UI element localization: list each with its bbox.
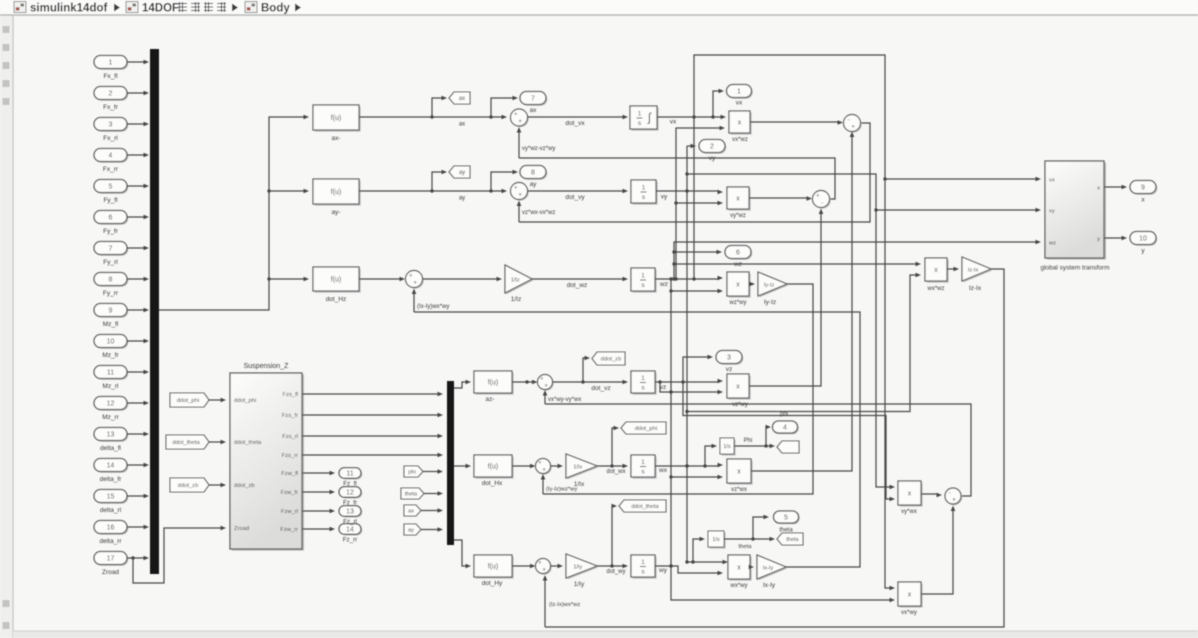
feedback row3 path <box>414 312 860 567</box>
wire fcn Hx to sum <box>512 464 536 469</box>
wire inport 13 to mux <box>127 432 149 437</box>
svg-text:6: 6 <box>736 250 740 257</box>
breadcrumb arrow 1 <box>114 4 120 12</box>
svg-text:Mz_fr: Mz_fr <box>102 352 119 359</box>
breadcrumb text simulink14dof <box>30 3 107 15</box>
wire sum3 to gain <box>423 277 503 282</box>
inport 9 Mz_fl <box>94 304 128 329</box>
svg-text:Fzs_fl: Fzs_fl <box>283 392 298 398</box>
svg-text:Fx_rl: Fx_rl <box>103 135 118 142</box>
svg-text:f(u): f(u) <box>488 380 499 387</box>
wire Fzw_rr to outport 14 <box>302 527 335 532</box>
wire ax to mux <box>421 508 443 513</box>
fcn block az <box>474 371 514 403</box>
svg-text:Iy-Iz: Iy-Iz <box>764 299 776 306</box>
svg-text:Fz_rl: Fz_rl <box>343 519 357 526</box>
svg-text:dot_wz: dot_wz <box>567 282 588 289</box>
wire to outport 8 <box>491 170 518 191</box>
svg-text:Fx_fl: Fx_fl <box>103 73 118 80</box>
svg-text:1/s: 1/s <box>712 537 720 543</box>
svg-text:+: + <box>538 560 542 567</box>
from tag theta <box>401 488 424 499</box>
svg-text:delta_fl: delta_fl <box>100 445 122 452</box>
wire inport 8 to mux <box>127 277 149 282</box>
svg-text:+: + <box>542 567 546 574</box>
svg-text:Fzs_rl: Fzs_rl <box>282 434 298 440</box>
svg-text:+: + <box>409 273 413 280</box>
breadcrumb icon 14DOF <box>126 2 138 13</box>
svg-text:wz*wy: wz*wy <box>728 300 746 306</box>
svg-text:ay: ay <box>459 170 465 176</box>
label wx <box>658 467 668 474</box>
wire wzwy to gain <box>749 282 755 287</box>
gain Iy-Iz <box>758 272 788 306</box>
wire theta to mux <box>424 491 443 496</box>
wire vx down segment <box>693 117 695 279</box>
svg-text:phi: phi <box>780 412 788 418</box>
svg-text:f(u): f(u) <box>331 115 342 122</box>
wire mux to fcn Hx <box>454 464 471 469</box>
wire ddot_phi in <box>209 398 226 403</box>
svg-text:ay-: ay- <box>331 209 340 216</box>
svg-text:dot_wx: dot_wx <box>606 469 625 475</box>
feedback az path <box>545 404 971 496</box>
sum Hy <box>536 559 552 575</box>
from tag ax2 <box>404 505 421 516</box>
wire gain Ix to integrator <box>597 464 628 475</box>
feedback row2 arrow <box>517 201 556 223</box>
svg-text:1/Ix: 1/Ix <box>573 464 582 470</box>
inport 17 Zroad <box>94 552 128 577</box>
svg-text:Mz_rr: Mz_rr <box>102 414 119 421</box>
feedback Hy arrow <box>543 575 581 627</box>
wire phi out <box>734 444 775 449</box>
product vz*wx <box>727 459 753 493</box>
svg-text:vz*wy: vz*wy <box>732 402 748 408</box>
outport 1 vx <box>727 85 753 107</box>
label wy <box>658 567 668 574</box>
wire vz lower to product <box>660 382 723 394</box>
svg-text:ay: ay <box>459 196 465 202</box>
svg-text:x: x <box>737 565 741 572</box>
svg-text:ddot_zb: ddot_zb <box>601 357 622 363</box>
svg-text:15: 15 <box>107 494 115 501</box>
svg-text:ddot_phi: ddot_phi <box>177 398 199 404</box>
wire vz to outport 3 <box>683 355 713 382</box>
svg-text:13: 13 <box>107 432 115 439</box>
wire vxwz to sum <box>750 120 843 125</box>
svg-text:Fz_rr: Fz_rr <box>343 537 357 544</box>
svg-text:9: 9 <box>109 308 113 315</box>
svg-text:ddot_phi: ddot_phi <box>635 426 657 432</box>
sum row2 <box>511 183 529 201</box>
svg-text:ay: ay <box>408 528 414 534</box>
feedback Hx arrow <box>541 474 578 494</box>
wire sum2 to integrator <box>528 189 629 201</box>
label outport 12 Fz_fr <box>343 500 357 507</box>
svg-text:-: - <box>821 200 823 207</box>
wire wxwz to gain <box>947 267 959 272</box>
svg-text:dot_vx: dot_vx <box>565 120 585 127</box>
svg-text:ddot_phi: ddot_phi <box>234 398 256 404</box>
palette icons <box>3 26 10 629</box>
svg-text:2: 2 <box>710 144 714 151</box>
svg-text:ax: ax <box>459 122 465 128</box>
svg-text:ddot_theta: ddot_theta <box>631 504 659 510</box>
product vy*wx <box>898 481 923 515</box>
wire inport 5 to mux <box>127 184 149 189</box>
label ax wire <box>459 122 465 128</box>
svg-text:vz: vz <box>660 384 667 391</box>
fcn block ay <box>313 179 361 216</box>
sum row1 <box>511 109 529 127</box>
wire sum Hx to gain <box>551 464 564 469</box>
small integrator phi <box>720 438 736 456</box>
mux bar main <box>150 49 159 574</box>
svg-text:4: 4 <box>109 153 113 160</box>
wire wx to product wx*wy upper <box>685 560 728 565</box>
wire inport 17 to mux <box>127 556 149 561</box>
svg-text:8: 8 <box>109 277 113 284</box>
outport 2 vy <box>699 140 726 163</box>
svg-text:f(u): f(u) <box>488 464 499 471</box>
svg-text:f(u): f(u) <box>331 277 342 284</box>
from tag phi <box>404 466 423 477</box>
outport 5 theta <box>774 511 800 534</box>
svg-text:Zroad: Zroad <box>102 569 119 576</box>
svg-text:x: x <box>934 267 938 274</box>
svg-text:Fy_rr: Fy_rr <box>103 290 119 297</box>
gain Ix-Iy <box>757 555 787 589</box>
svg-text:wx*wz: wx*wz <box>926 286 944 292</box>
label Phi <box>744 438 753 444</box>
outport 12 Fz_fr <box>339 487 362 499</box>
inport 12 Mz_rr <box>94 397 128 422</box>
inport 1 Fx_fl <box>94 56 128 81</box>
sum right2 <box>813 191 831 209</box>
svg-text:dot_Hy: dot_Hy <box>482 580 503 587</box>
svg-text:theta: theta <box>405 492 418 498</box>
outport 11 Fz_fl <box>339 468 362 480</box>
wire wz to product wx*wz <box>674 262 921 267</box>
from tag ddot_phi <box>170 393 209 407</box>
inport 2 Fx_fr <box>94 87 128 112</box>
svg-text:Fzw_fr: Fzw_fr <box>281 490 298 496</box>
from tag ddot_theta <box>166 435 209 449</box>
integrator vx <box>630 106 659 131</box>
wire vy loop <box>685 172 895 489</box>
svg-text:1/Iy: 1/Iy <box>574 581 585 588</box>
svg-text:vy*wz: vy*wz <box>730 213 746 219</box>
wire fcn az to sum <box>512 380 538 385</box>
svg-text:Fzw_fl: Fzw_fl <box>281 471 298 477</box>
svg-text:ddot_zb: ddot_zb <box>234 483 255 489</box>
subsystem global system transform <box>1041 161 1110 272</box>
wire ddot_zb in <box>209 483 226 488</box>
wire to outport 2 <box>687 144 696 562</box>
breadcrumb pseudo-CJK 整车模型 <box>178 2 226 12</box>
wire wz riser up <box>672 240 1041 279</box>
svg-text:7: 7 <box>531 96 535 103</box>
svg-text:Fy_fl: Fy_fl <box>103 197 118 204</box>
outport 13 Fz_rl <box>339 506 362 518</box>
wire wxwy to gain <box>749 565 755 570</box>
svg-text:ax: ax <box>459 96 465 102</box>
svg-text:10: 10 <box>107 339 115 346</box>
svg-text:Fzw_rl: Fzw_rl <box>281 509 298 515</box>
wire fcn Hy to sum <box>512 564 536 569</box>
integrator vz <box>631 371 657 395</box>
svg-text:3: 3 <box>727 355 731 362</box>
goto tag ddot_zb <box>592 352 625 365</box>
mux bar mid <box>447 381 454 545</box>
svg-text:7: 7 <box>109 246 113 253</box>
svg-text:3: 3 <box>109 122 113 129</box>
svg-text:wz: wz <box>659 281 668 288</box>
wire vzwx out to sum right1 <box>751 132 854 472</box>
svg-text:wx*wy: wx*wy <box>729 583 747 589</box>
inport 13 delta_fl <box>94 428 128 453</box>
product vz*wy <box>727 374 751 408</box>
svg-text:x: x <box>738 120 742 127</box>
svg-text:Ix-Iy: Ix-Iy <box>763 565 774 571</box>
svg-text:+: + <box>518 192 522 199</box>
fcn block dot_Hx <box>474 455 514 487</box>
svg-text:Fy_fr: Fy_fr <box>103 228 119 235</box>
svg-text:phi: phi <box>408 470 416 476</box>
integrator wy <box>631 555 657 579</box>
svg-text:dot_Hz: dot_Hz <box>326 296 347 303</box>
svg-text:simulink14dof: simulink14dof <box>30 3 107 15</box>
svg-text:10: 10 <box>1139 236 1147 243</box>
svg-text:vy: vy <box>661 194 668 201</box>
label outport 13 Fz_rl <box>343 519 357 526</box>
svg-text:1: 1 <box>737 89 741 96</box>
wire vx out <box>657 115 726 120</box>
svg-text:vx*wy-vy*wx: vx*wy-vy*wx <box>548 397 581 403</box>
svg-text:14: 14 <box>107 463 115 470</box>
product wx*wz <box>925 258 949 292</box>
svg-text:Fzw_rr: Fzw_rr <box>280 527 298 533</box>
wire sum Hy to gain <box>551 564 564 569</box>
svg-text:+: + <box>851 124 855 131</box>
feedback row1 arrow <box>517 127 556 158</box>
svg-text:x: x <box>737 469 741 476</box>
svg-text:1/Iz: 1/Iz <box>511 296 521 303</box>
wire phi to mux <box>423 469 443 474</box>
wire inport 14 to mux <box>127 463 149 468</box>
fcn block dot_Hz <box>313 267 361 303</box>
wire vx top loop <box>694 55 895 590</box>
svg-text:wz: wz <box>1048 241 1056 247</box>
goto tag ddot_phi <box>621 422 666 434</box>
svg-text:+: + <box>816 193 820 200</box>
wire inport 11 to mux <box>127 370 149 375</box>
svg-text:dot_vz: dot_vz <box>591 385 610 392</box>
breadcrumb bar <box>0 0 1198 15</box>
sum az <box>538 375 554 391</box>
svg-text:+: + <box>538 460 542 467</box>
wire to 1/s theta <box>693 537 705 562</box>
fcn block ax <box>313 105 361 142</box>
product vx*wz <box>729 111 752 143</box>
goto tag ddot_theta <box>619 500 666 512</box>
svg-text:+: + <box>413 280 417 287</box>
wire fcn Hz to sum <box>359 277 405 282</box>
wire vz out <box>655 379 723 384</box>
wire to goto ddot_phi <box>612 426 619 466</box>
integrator wx <box>631 455 657 479</box>
svg-text:ay: ay <box>530 181 538 188</box>
svg-text:+: + <box>518 118 522 125</box>
wire vxwy to sum <box>921 506 955 595</box>
label outport 14 Fz_rr <box>343 537 357 544</box>
product wx*wy <box>728 555 752 589</box>
svg-text:wx: wx <box>658 467 668 474</box>
gain 1/Ix <box>566 454 598 488</box>
wire transform y out <box>1104 236 1127 241</box>
wire Fzw_fl to outport 11 <box>302 471 335 476</box>
inport 10 Mz_fr <box>94 335 128 360</box>
left palette strip <box>0 16 13 638</box>
svg-text:Iz-Ix: Iz-Ix <box>968 267 979 273</box>
wire vzwy out to sum right2 <box>749 209 823 387</box>
wire Zroad branch to Suspension_Z <box>131 526 226 583</box>
svg-text:+: + <box>544 383 548 390</box>
gain 1/Iy <box>566 554 598 588</box>
svg-text:delta_rr: delta_rr <box>99 538 122 545</box>
svg-text:vy*wx: vy*wx <box>901 509 917 515</box>
wire wz out <box>655 276 723 281</box>
wire fcn ay to sum <box>359 189 507 194</box>
svg-text:theta: theta <box>739 544 753 550</box>
wire to goto ax <box>432 96 447 117</box>
wire wz riser to product vy*wz <box>676 201 723 206</box>
product vx*wy <box>898 582 923 616</box>
svg-text:-: - <box>949 490 951 497</box>
wire ay to mux <box>421 527 443 532</box>
subsystem Suspension_Z <box>230 363 304 551</box>
outport 10 y <box>1130 232 1157 255</box>
svg-text:dot_vy: dot_vy <box>565 194 585 201</box>
svg-text:ax: ax <box>408 509 414 515</box>
svg-text:x: x <box>736 384 740 391</box>
wire sum1 to integrator <box>528 115 629 127</box>
outport 3 vz <box>716 351 743 374</box>
fcn block dot_Hy <box>474 555 514 587</box>
wire vy out <box>656 189 723 194</box>
label vy <box>661 194 668 201</box>
svg-text:1: 1 <box>638 111 642 118</box>
svg-text:1: 1 <box>642 185 646 192</box>
breadcrumb text 14DOF <box>142 3 179 15</box>
wire inport 1 to mux <box>127 60 149 65</box>
svg-text:+: + <box>514 111 518 118</box>
sum right3 <box>945 488 962 505</box>
inport 15 delta_rl <box>94 490 128 515</box>
svg-text:1/Iz: 1/Iz <box>511 277 520 283</box>
wire transform x out <box>1104 185 1127 190</box>
svg-text:Zroad: Zroad <box>234 526 249 532</box>
svg-text:Suspension_Z: Suspension_Z <box>244 363 289 370</box>
svg-text:vx: vx <box>670 119 677 126</box>
feedback row3 arrow <box>412 289 450 313</box>
svg-text:5: 5 <box>109 184 113 191</box>
svg-text:+: + <box>542 467 546 474</box>
wire Fzs_fl to mux <box>302 392 443 397</box>
svg-text:1/s: 1/s <box>723 444 731 450</box>
svg-text:(Iy-Iz)wz*wy: (Iy-Iz)wz*wy <box>546 487 577 493</box>
integrator wz <box>631 268 657 293</box>
wire Fzs_rr to mux <box>302 453 443 458</box>
integrator vy <box>631 180 658 205</box>
svg-text:theta: theta <box>786 537 799 543</box>
sum row3 <box>406 271 424 289</box>
wire sum az to integrator <box>553 380 629 392</box>
outport 6 wz <box>725 246 752 269</box>
from tag ddot_zb <box>170 478 209 492</box>
wire Fzs_fr to mux <box>302 413 443 418</box>
svg-text:delta_fr: delta_fr <box>100 476 123 483</box>
inport 5 Fy_fl <box>94 180 128 205</box>
wire wx to 1/s phi <box>705 444 717 466</box>
sum Hx <box>536 459 552 475</box>
inport 8 Fy_rr <box>94 273 128 298</box>
label outport 11 Fz_fl <box>343 481 356 488</box>
svg-text:Fx_rr: Fx_rr <box>103 166 119 173</box>
feedback az arrow <box>543 390 582 404</box>
breadcrumb icon simulink14dof <box>14 2 26 13</box>
svg-text:1: 1 <box>641 459 645 466</box>
wire into product vx*wz lower <box>674 126 725 279</box>
wire to outport 1 <box>713 89 724 117</box>
svg-text:x: x <box>908 592 912 599</box>
svg-text:∫: ∫ <box>647 111 652 125</box>
svg-text:ax: ax <box>530 107 538 114</box>
svg-text:x: x <box>1097 186 1100 192</box>
wire fcn ax to sum <box>359 115 507 120</box>
svg-text:16: 16 <box>107 525 115 532</box>
svg-text:vx*wz: vx*wz <box>732 137 748 143</box>
wire wz to outport 6 <box>674 250 722 255</box>
wire vywz to sum <box>749 196 812 201</box>
bottom status strip <box>13 631 1198 638</box>
svg-text:5: 5 <box>784 515 788 522</box>
breadcrumb arrow 2 <box>232 4 238 12</box>
svg-text:17: 17 <box>107 556 115 563</box>
svg-text:Ix-Iy: Ix-Iy <box>763 582 776 589</box>
svg-text:vx: vx <box>1049 178 1055 184</box>
wire ddot_theta in <box>209 440 226 445</box>
svg-text:-: - <box>848 117 850 124</box>
wire mux to fcn Hy <box>454 540 471 568</box>
outport 8 ay <box>520 166 547 189</box>
svg-text:wy: wy <box>658 567 668 574</box>
svg-text:Phi: Phi <box>744 438 753 444</box>
svg-text:Mz_rl: Mz_rl <box>103 383 119 390</box>
svg-text:ddot_theta: ddot_theta <box>172 440 200 446</box>
svg-text:12: 12 <box>346 490 354 497</box>
wire vywx to sum <box>921 493 942 498</box>
wire to goto ddot_theta <box>612 504 618 566</box>
wire inport 16 to mux <box>127 525 149 530</box>
gain Iz-Ix <box>962 257 992 292</box>
svg-text:Fz_fr: Fz_fr <box>343 500 357 507</box>
svg-text:+: + <box>540 376 544 383</box>
svg-text:4: 4 <box>783 425 787 432</box>
svg-text:global system transform: global system transform <box>1041 265 1110 272</box>
wire inport 6 to mux <box>127 215 149 220</box>
